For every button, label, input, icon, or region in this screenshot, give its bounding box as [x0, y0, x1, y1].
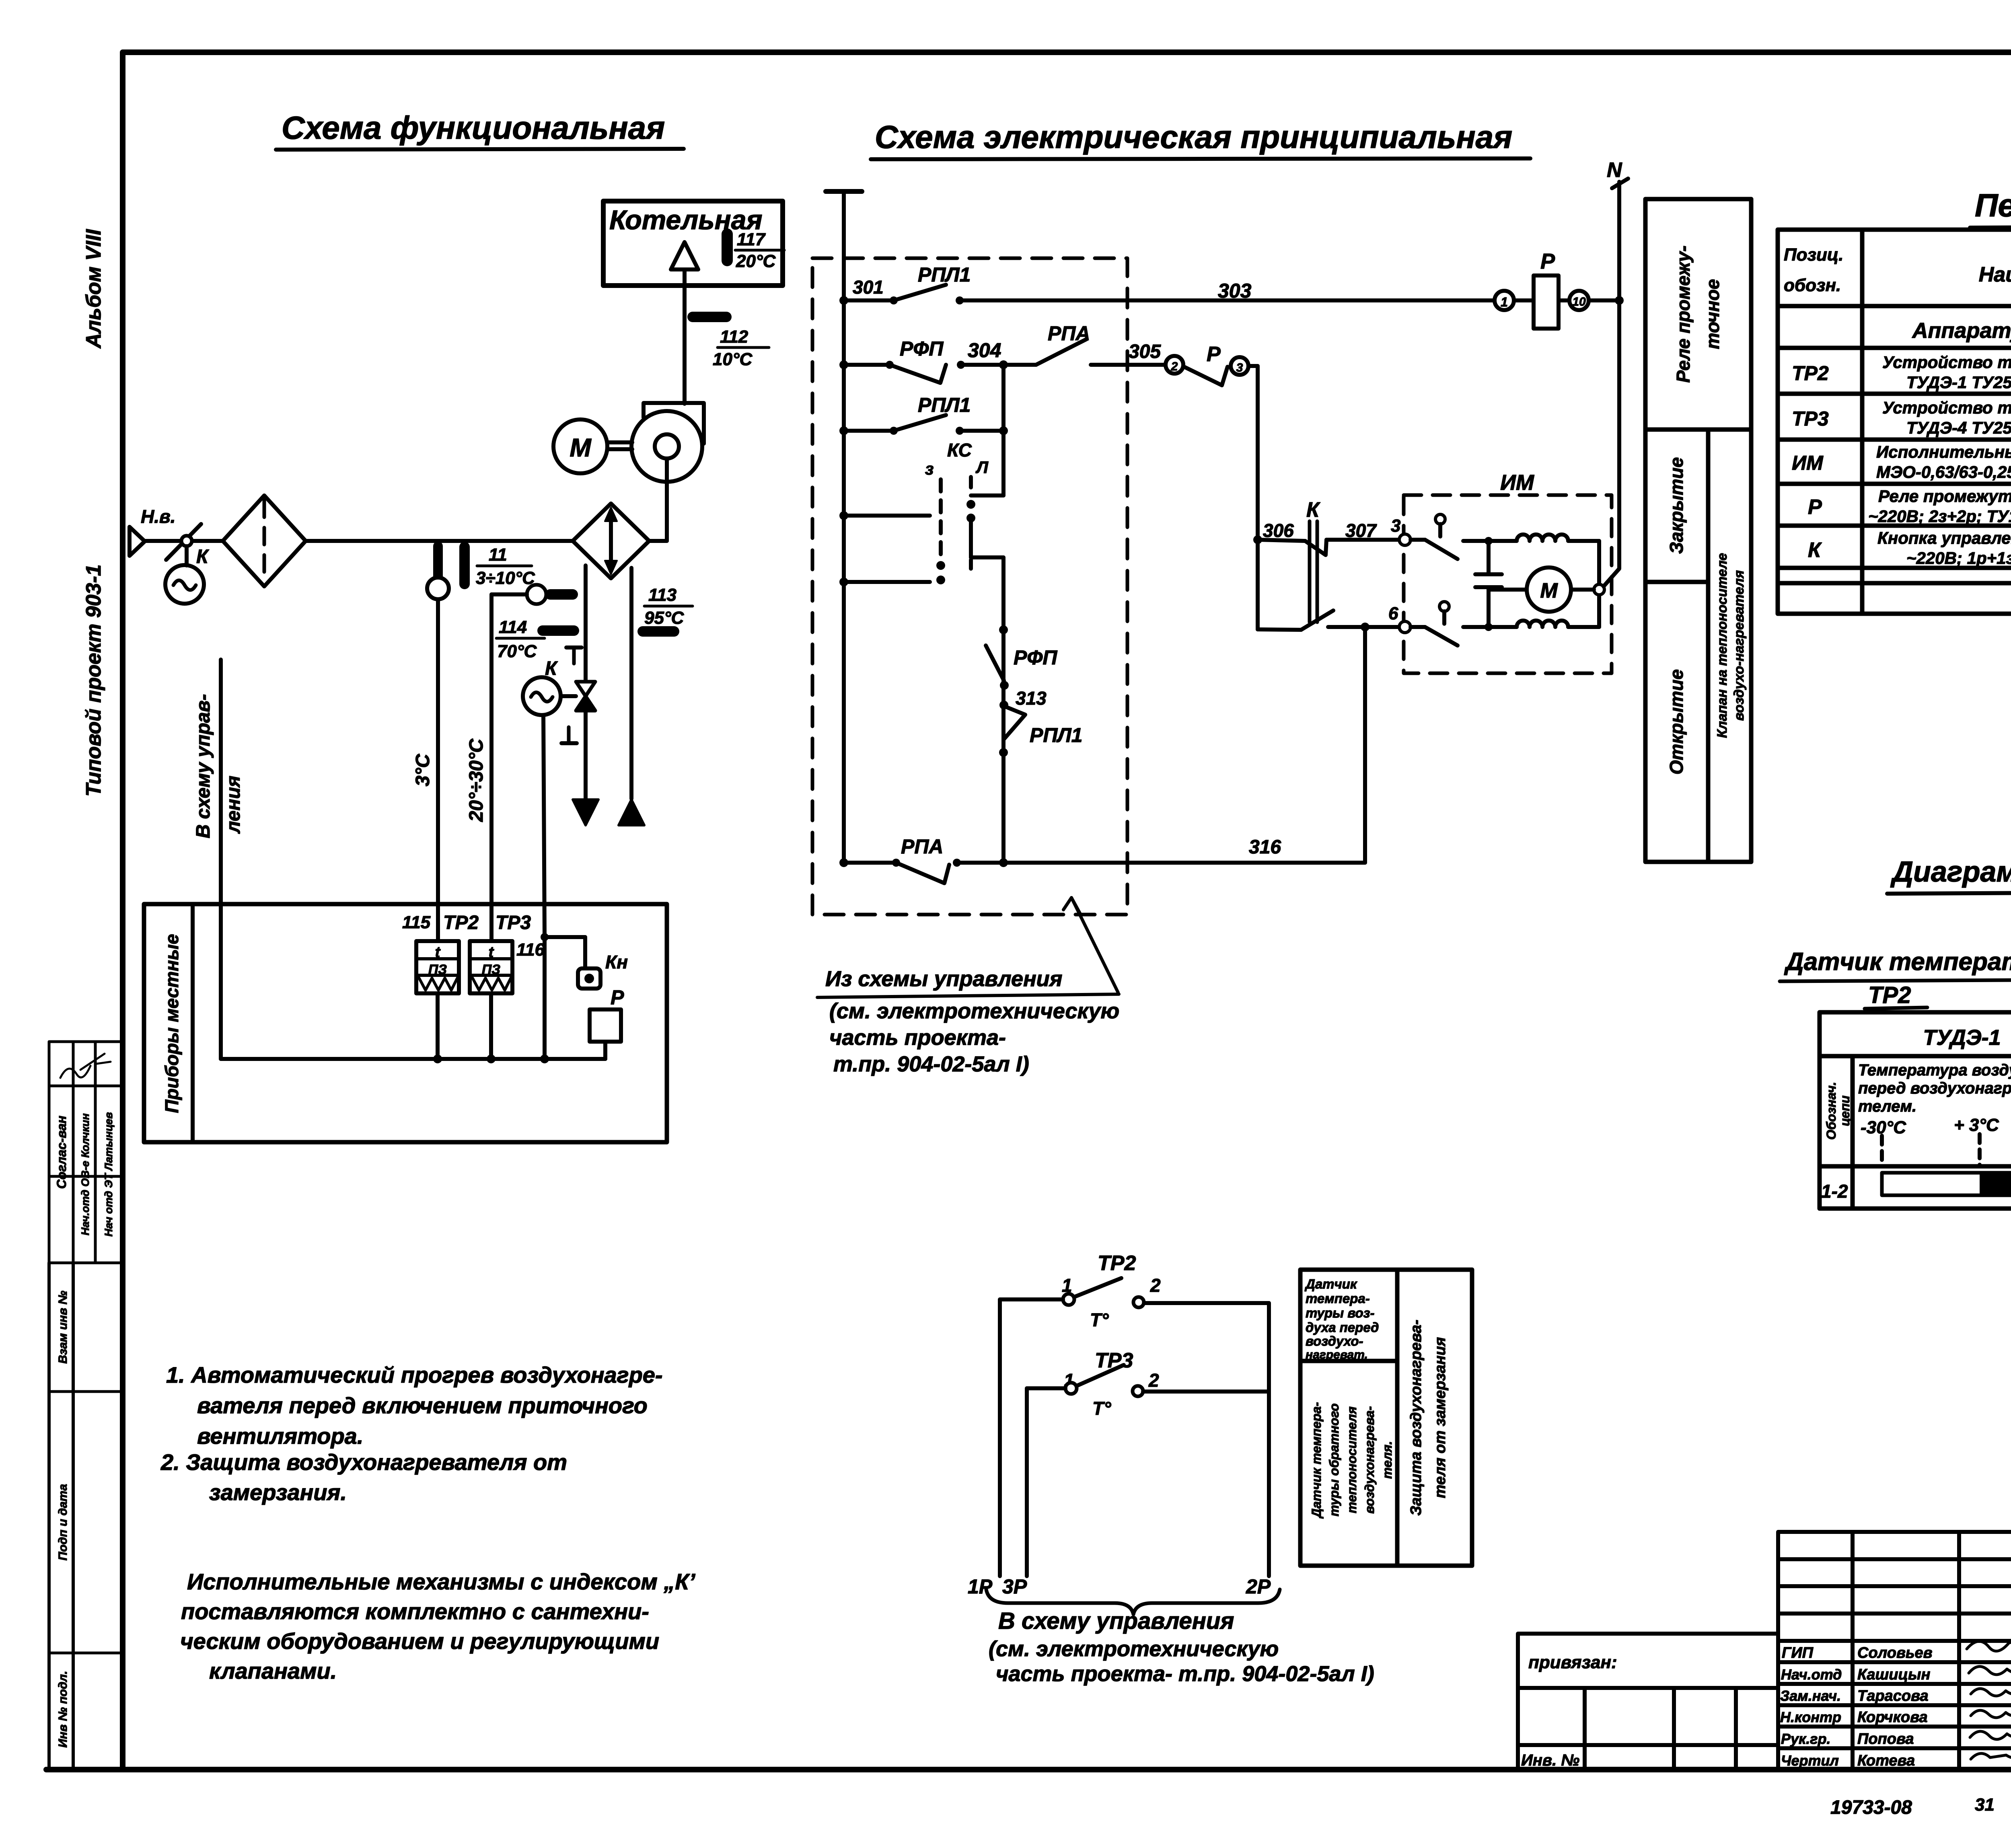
svg-text:К: К: [1808, 539, 1822, 562]
rung 316 bottom: [839, 858, 848, 867]
winding top: [1517, 534, 1568, 541]
svg-text:~220В; 2з+2р; ТУ16-523.457-: ~220В; 2з+2р; ТУ16-523.457-74: [1868, 507, 2011, 526]
capacitor: [1487, 541, 1491, 574]
svg-text:Взам инв №: Взам инв №: [56, 1291, 70, 1363]
svg-text:70°С: 70°С: [497, 641, 537, 661]
svg-text:2: 2: [1150, 1275, 1161, 1296]
purpose box (bottom middle): [1300, 1270, 1472, 1566]
actuator circle (damper): [165, 565, 204, 604]
contact РФП (NC): [886, 361, 894, 369]
svg-text:20°С: 20°С: [736, 251, 776, 271]
wire ТР2 to bus: [436, 993, 440, 1059]
position Л line: [969, 477, 973, 495]
pipe flange Т top: [566, 645, 582, 650]
left margin stamp grid (lower: Взам инв №, Подп и дата, Инв № подл.): [47, 1263, 51, 1770]
right rail and pin 1: [1597, 541, 1601, 627]
svg-text:т.пр. 904-02-5ал I): т.пр. 904-02-5ал I): [833, 1052, 1029, 1076]
motor М of actuator: [1527, 567, 1571, 612]
svg-text:Тарасова: Тарасова: [1857, 1688, 1929, 1704]
svg-text:303: 303: [1218, 280, 1252, 302]
svg-text:В схему управ-: В схему управ-: [193, 694, 214, 839]
svg-text:+ 3°С: + 3°С: [1954, 1115, 1999, 1135]
svg-text:РФП: РФП: [900, 337, 944, 360]
pipe flange Т bottom: [567, 727, 571, 742]
svg-text:115: 115: [402, 913, 431, 932]
svg-text:М: М: [1540, 579, 1558, 602]
svg-text:20°÷30°С: 20°÷30°С: [466, 738, 487, 822]
svg-text:2: 2: [1148, 1370, 1159, 1391]
svg-text:Датчик температуры: Датчик температуры: [1784, 948, 2011, 976]
svg-text:воздухо-: воздухо-: [1306, 1334, 1363, 1348]
rung 304/305: [839, 360, 848, 369]
svg-text:Позиц.: Позиц.: [1784, 245, 1844, 265]
svg-text:Схема функциональная: Схема функциональная: [282, 110, 665, 146]
svg-text:Подп и дата: Подп и дата: [56, 1484, 70, 1560]
svg-text:Р: Р: [1207, 343, 1221, 366]
wire: duct from fan to Котельная: [683, 270, 687, 404]
svg-text:313: 313: [1016, 688, 1047, 709]
wire valve line to bus: [543, 937, 547, 1059]
Котельная room box: [603, 201, 783, 286]
svg-text:Р: Р: [611, 986, 624, 1009]
svg-text:привязан:: привязан:: [1528, 1653, 1617, 1672]
air outlet triangle in Котельная: [671, 242, 698, 269]
brace: [986, 1589, 1280, 1614]
contact РПЛ1 (NO): [890, 296, 898, 304]
svg-text:замерзания.: замерзания.: [209, 1480, 347, 1505]
motor M: [553, 419, 607, 473]
svg-text:воздухо-нагревателя: воздухо-нагревателя: [1731, 570, 1747, 721]
svg-text:Инв. №: Инв. №: [1521, 1751, 1579, 1769]
svg-text:ТР3: ТР3: [496, 912, 531, 933]
bus inside box: [221, 1057, 605, 1061]
wire 1Р vertical: [998, 1299, 1002, 1576]
svg-text:Закрытие: Закрытие: [1666, 457, 1687, 554]
svg-text:116: 116: [516, 940, 545, 960]
device ТР2: [416, 941, 459, 993]
svg-text:Р: Р: [1808, 495, 1822, 519]
svg-text:~220В; 1р+1з: ~220В; 1р+1з: [1906, 549, 2011, 567]
svg-text:Н.в.: Н.в.: [141, 506, 176, 527]
left margin stamp grid (upper, Согласовано block): [49, 1042, 123, 1263]
svg-text:304: 304: [968, 339, 1001, 362]
svg-text:6: 6: [1388, 604, 1398, 623]
filter diamond: [223, 495, 306, 586]
svg-text:Из схемы управления: Из схемы управления: [825, 967, 1062, 991]
svg-text:Соглас-ван: Соглас-ван: [54, 1116, 69, 1189]
wire: valve actuator to instruments: [543, 715, 545, 937]
Приборы местные box: [144, 904, 667, 1142]
К top pole 306-307: [1258, 540, 1305, 541]
svg-text:1. Автоматический прогрев: 1. Автоматический прогрев воздухонагре-: [166, 1362, 663, 1388]
svg-text:туры обратного: туры обратного: [1327, 1403, 1341, 1516]
limit switch bottom: [1439, 602, 1449, 611]
svg-text:t: t: [435, 944, 441, 961]
svg-text:теплоносителя: теплоносителя: [1345, 1406, 1359, 1513]
wire 3Р vertical: [1025, 1388, 1029, 1576]
fan (centrifugal): [631, 411, 702, 482]
svg-text:ТР2: ТР2: [1792, 362, 1829, 384]
svg-text:ТР2: ТР2: [1868, 982, 1911, 1008]
svg-text:ТР2: ТР2: [443, 912, 479, 933]
svg-text:Т°: Т°: [1092, 1398, 1111, 1419]
svg-text:301: 301: [853, 277, 884, 298]
svg-text:Устройство терморегулирующее: Устройство терморегулирующее: [1882, 353, 2011, 372]
svg-text:точное: точное: [1702, 279, 1723, 349]
svg-text:N: N: [1607, 158, 1622, 182]
svg-text:РФП: РФП: [1014, 646, 1057, 669]
svg-text:Приборы местные: Приборы местные: [161, 934, 182, 1113]
svg-text:11: 11: [489, 545, 507, 565]
svg-text:Корчкова: Корчкова: [1857, 1709, 1928, 1726]
svg-text:ИМ: ИМ: [1500, 471, 1534, 495]
vertical link at 2495: [1001, 365, 1005, 495]
title block: привязан section: [1518, 1634, 1778, 1770]
limit switch top: [1435, 514, 1445, 524]
svg-text:31: 31: [1975, 1795, 1995, 1815]
svg-text:ИМ: ИМ: [1792, 452, 1824, 474]
svg-text:Попова: Попова: [1857, 1731, 1914, 1747]
duct line: [145, 539, 223, 543]
svg-text:РПЛ1: РПЛ1: [918, 394, 971, 416]
svg-text:Чертил: Чертил: [1781, 1752, 1839, 1769]
wire: В схему управления: [219, 660, 223, 1059]
capillary sensor of ТР3: [527, 585, 546, 604]
svg-text:вателя перед включением: вателя перед включением приточного: [197, 1393, 648, 1418]
svg-text:МЭО-0,63/63-0,25 ТУ1-01.03: МЭО-0,63/63-0,25 ТУ1-01.0321-75: [1876, 463, 2011, 481]
svg-text:Котева: Котева: [1857, 1752, 1915, 1769]
svg-text:Перечень элементов: Перечень элементов: [1975, 187, 2011, 223]
svg-text:Т°: Т°: [1090, 1309, 1109, 1330]
svg-text:ТУДЭ-1 ТУ25-02. 1074-75: ТУДЭ-1 ТУ25-02. 1074-75: [1906, 373, 2011, 392]
svg-text:ления: ления: [223, 776, 244, 834]
signature scribbles: [1967, 1637, 2011, 1651]
winding bottom: [1517, 621, 1568, 627]
svg-text:духа перед: духа перед: [1306, 1320, 1379, 1335]
title block: signature grid: [1778, 1532, 2011, 1770]
svg-text:Диаграммы замыкания контакто: Диаграммы замыкания контактов: [1890, 856, 2011, 888]
svg-text:РПЛ1: РПЛ1: [918, 263, 971, 286]
svg-text:Аппаратура по месту: Аппаратура по месту: [1911, 319, 2011, 343]
valve actuator circle К: [523, 677, 561, 715]
svg-text:РПЛ1: РПЛ1: [1030, 724, 1082, 746]
heat pipe supply with valve: [584, 565, 588, 681]
wire: sensor line to ТР2: [436, 599, 440, 941]
parts list table grid: [1778, 230, 2011, 614]
svg-text:Нач отд ЭТ Латынцев: Нач отд ЭТ Латынцев: [103, 1112, 115, 1236]
leader line to dashed box: [1071, 898, 1118, 993]
coupling motor-fan: [608, 440, 632, 444]
svg-text:113: 113: [648, 585, 677, 605]
wire: sensor line to ТР3: [489, 594, 493, 941]
svg-text:95°С: 95°С: [644, 608, 685, 628]
svg-text:нагреват.: нагреват.: [1306, 1348, 1368, 1361]
svg-text:Нач.отд: Нач.отд: [1781, 1666, 1842, 1683]
svg-text:3Р: 3Р: [1002, 1575, 1027, 1598]
svg-text:307: 307: [1345, 520, 1377, 541]
svg-text:В схему управления: В схему управления: [998, 1608, 1234, 1634]
svg-text:Кашицын: Кашицын: [1857, 1666, 1930, 1683]
svg-text:Открытие: Открытие: [1666, 669, 1687, 775]
contact РПЛ1 (NC, vertical): [1004, 706, 1025, 739]
svg-text:теля от замерзания: теля от замерзания: [1432, 1337, 1449, 1499]
svg-text:ТР3: ТР3: [1792, 407, 1829, 430]
svg-text:2Р: 2Р: [1246, 1575, 1271, 1598]
rung РПЛ1 seal-in: [839, 426, 848, 435]
svg-text:ТУДЭ-1: ТУДЭ-1: [1923, 1026, 2001, 1050]
svg-text:Клапан на теплоносителе: Клапан на теплоносителе: [1715, 553, 1730, 738]
svg-text:воздухонагрева-: воздухонагрева-: [1362, 1406, 1377, 1513]
svg-text:ТР2: ТР2: [1098, 1252, 1136, 1275]
svg-text:3: 3: [1236, 361, 1243, 374]
node on N: [1615, 296, 1624, 305]
wire 316: [957, 861, 1365, 865]
svg-text:t: t: [489, 944, 494, 961]
svg-text:часть проекта- т.пр. 904-02-5: часть проекта- т.пр. 904-02-5ал I): [996, 1662, 1374, 1686]
svg-text:114: 114: [499, 617, 527, 637]
pin 3: [1399, 534, 1411, 545]
wire: fan inlet down to duct: [665, 458, 669, 541]
return pipe: [629, 568, 633, 799]
svg-text:ГИП: ГИП: [1782, 1644, 1814, 1661]
control valve К: [576, 682, 595, 696]
contact РФП (NO, vertical): [986, 645, 1004, 680]
svg-text:ческим оборудованием и: ческим оборудованием и регулирующими: [180, 1628, 659, 1654]
svg-text:Кнопка управления ПКЕ-212-: Кнопка управления ПКЕ-212-1У2: [1877, 528, 2011, 547]
terminal 2: [1166, 356, 1183, 374]
relay P coil with terminals: [1495, 291, 1514, 310]
svg-text:Обознач.: Обознач.: [1824, 1082, 1838, 1140]
thermometer 117: [722, 234, 733, 261]
damper К on inlet: [166, 524, 201, 560]
node: branch to Кн: [541, 933, 549, 941]
svg-text:Датчик: Датчик: [1304, 1277, 1358, 1291]
svg-text:316: 316: [1249, 837, 1281, 858]
button Кн: [578, 968, 600, 989]
svg-text:3: 3: [1391, 516, 1400, 536]
svg-text:обозн.: обозн.: [1784, 275, 1841, 295]
К bottom pole: [1258, 629, 1301, 630]
svg-text:К: К: [1306, 498, 1320, 522]
svg-text:10°С: 10°С: [713, 349, 753, 369]
svg-text:1: 1: [1501, 295, 1508, 309]
svg-text:часть проекта-: часть проекта-: [829, 1026, 1006, 1050]
svg-text:темпера-: темпера-: [1306, 1291, 1370, 1306]
device ТР3: [470, 941, 512, 993]
wire from terminal 3 down: [1248, 364, 1258, 368]
svg-text:19733-08: 19733-08: [1830, 1797, 1912, 1818]
svg-text:2. Защита воздухонагревателя: 2. Защита воздухонагревателя от: [160, 1449, 567, 1475]
svg-text:Схема электрическая принципи: Схема электрическая принципиальная: [875, 119, 1512, 155]
svg-text:Типовой проект 903-1: Типовой проект 903-1: [82, 564, 105, 796]
svg-text:305: 305: [1129, 341, 1161, 362]
svg-text:Исполнительные механизмы: Исполнительные механизмы с индексом „К’: [187, 1569, 696, 1594]
svg-text:Л: Л: [975, 458, 989, 477]
terminal 3: [1231, 357, 1248, 375]
svg-text:Температура воздуха: Температура воздуха: [1858, 1061, 2011, 1079]
svg-text:Реле промежуточное ПЭ-21-: Реле промежуточное ПЭ-21-8УЗ: [1878, 487, 2011, 506]
svg-text:ПЗ: ПЗ: [428, 962, 447, 977]
svg-text:РПА: РПА: [901, 835, 943, 858]
svg-text:теля.: теля.: [1380, 1441, 1394, 1479]
svg-text:Соловьев: Соловьев: [1857, 1644, 1933, 1661]
wire 2Р vertical: [1267, 1303, 1271, 1576]
svg-text:поставляются комплектно с: поставляются комплектно с сантехни-: [181, 1599, 649, 1624]
svg-text:ТУДЭ-4 ТУ25-02. 1074-75: ТУДЭ-4 ТУ25-02. 1074-75: [1906, 418, 2011, 437]
vertical wire to РФП chain: [1001, 557, 1005, 863]
wire rung 301: [844, 298, 894, 302]
svg-text:Защита воздухонагрева-: Защита воздухонагрева-: [1408, 1320, 1425, 1515]
supply pipe down arrow: [573, 800, 598, 825]
svg-text:Кн: Кн: [605, 952, 628, 972]
thermometer (solid) sensor 11: [459, 547, 470, 584]
svg-text:Н.контр: Н.контр: [1780, 1709, 1841, 1725]
position з dashed line: [939, 479, 943, 562]
svg-text:112: 112: [720, 327, 748, 347]
svg-text:М: М: [570, 433, 592, 462]
pin 6: [1399, 621, 1411, 633]
left diagram table ТУДЭ-1: [1820, 1012, 2011, 1209]
wire 303: [960, 298, 1495, 302]
stub rung to Л: [839, 578, 848, 586]
thermometer (bulb) sensor for ТР2: [433, 546, 443, 578]
svg-text:3÷10°С: 3÷10°С: [476, 568, 535, 588]
svg-text:Р: Р: [1540, 249, 1555, 273]
svg-text:ПЗ: ПЗ: [482, 962, 500, 977]
signature scribbles in upper stamp: [60, 1066, 90, 1078]
svg-text:Датчик темпера-: Датчик темпера-: [1309, 1402, 1324, 1519]
actuator ИМ dashed box: [1404, 495, 1612, 673]
right legend column: [1645, 199, 1751, 862]
svg-text:перед воздухонагрева-: перед воздухонагрева-: [1858, 1079, 2011, 1097]
svg-text:(см. электротехническую: (см. электротехническую: [989, 1637, 1279, 1661]
svg-text:10: 10: [1572, 295, 1586, 308]
flow mark 112: [693, 312, 726, 322]
svg-text:цепи: цепи: [1838, 1096, 1852, 1126]
svg-text:телем.: телем.: [1858, 1098, 1916, 1115]
svg-text:Инв № подл.: Инв № подл.: [56, 1671, 70, 1747]
svg-text:КС: КС: [947, 440, 972, 460]
svg-text:1-2: 1-2: [1821, 1181, 1848, 1202]
svg-text:117: 117: [737, 230, 766, 249]
svg-text:Исполнительный механизм: Исполнительный механизм: [1876, 442, 2011, 461]
svg-text:Реле промежу-: Реле промежу-: [1673, 245, 1694, 382]
return pipe up arrow: [619, 800, 644, 825]
svg-text:3°С: 3°С: [412, 753, 434, 786]
svg-text:Зам.нач.: Зам.нач.: [1780, 1688, 1841, 1704]
svg-text:К: К: [545, 658, 558, 679]
svg-text:Рук.гр.: Рук.гр.: [1781, 1731, 1831, 1747]
svg-text:з: з: [925, 459, 934, 478]
left supply bus L: [826, 189, 862, 194]
junction dots on bus: [433, 1055, 442, 1063]
svg-text:вентилятора.: вентилятора.: [197, 1423, 363, 1449]
stub rung to з: [839, 511, 848, 520]
svg-text:2: 2: [1171, 360, 1178, 373]
push button К: [1253, 535, 1262, 544]
svg-text:К: К: [196, 546, 210, 567]
dashed control-cabinet box: [812, 258, 1127, 915]
node 304: [999, 360, 1008, 369]
svg-text:-30°С: -30°С: [1861, 1118, 1906, 1137]
heater diamond: [573, 504, 649, 578]
svg-text:туры воз-: туры воз-: [1306, 1305, 1374, 1320]
wires ТР2 rung: [1000, 1297, 1063, 1301]
svg-text:Устройство терморегулирующее: Устройство терморегулирующее: [1882, 398, 2011, 417]
svg-text:клапанами.: клапанами.: [209, 1658, 337, 1684]
wire ТР3 to bus: [489, 993, 493, 1059]
svg-text:Нач.отд ОВ-е Колчкин: Нач.отд ОВ-е Колчкин: [79, 1113, 91, 1235]
svg-text:Наименование: Наименование: [1979, 263, 2011, 286]
svg-text:306: 306: [1263, 520, 1294, 541]
svg-text:(см. электротехническую: (см. электротехническую: [829, 999, 1119, 1023]
svg-text:Альбом VIII: Альбом VIII: [82, 229, 105, 349]
